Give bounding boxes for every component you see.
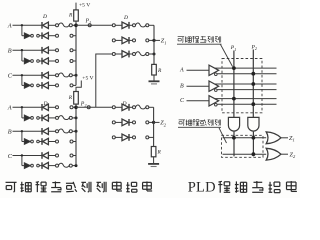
svg-text:D: D [42,14,47,20]
svg-text:A: A [7,23,12,30]
svg-text:+5 V: +5 V [82,75,93,81]
svg-text:R: R [68,12,73,18]
svg-text:B: B [8,129,12,136]
svg-text:P2: P2 [251,45,257,52]
svg-text:R: R [157,68,162,74]
svg-text:PLD: PLD [188,179,216,195]
svg-text:R: R [157,150,162,156]
svg-text:D: D [43,101,48,107]
svg-text:B: B [180,83,184,89]
svg-text:R: R [68,95,73,101]
svg-text:D: D [122,101,127,107]
svg-text:D: D [123,15,128,21]
svg-text:A: A [7,105,12,112]
svg-text:A: A [179,68,184,74]
svg-text:+5 V: +5 V [79,2,90,8]
svg-text:P1: P1 [230,45,236,52]
svg-text:B: B [8,48,12,55]
